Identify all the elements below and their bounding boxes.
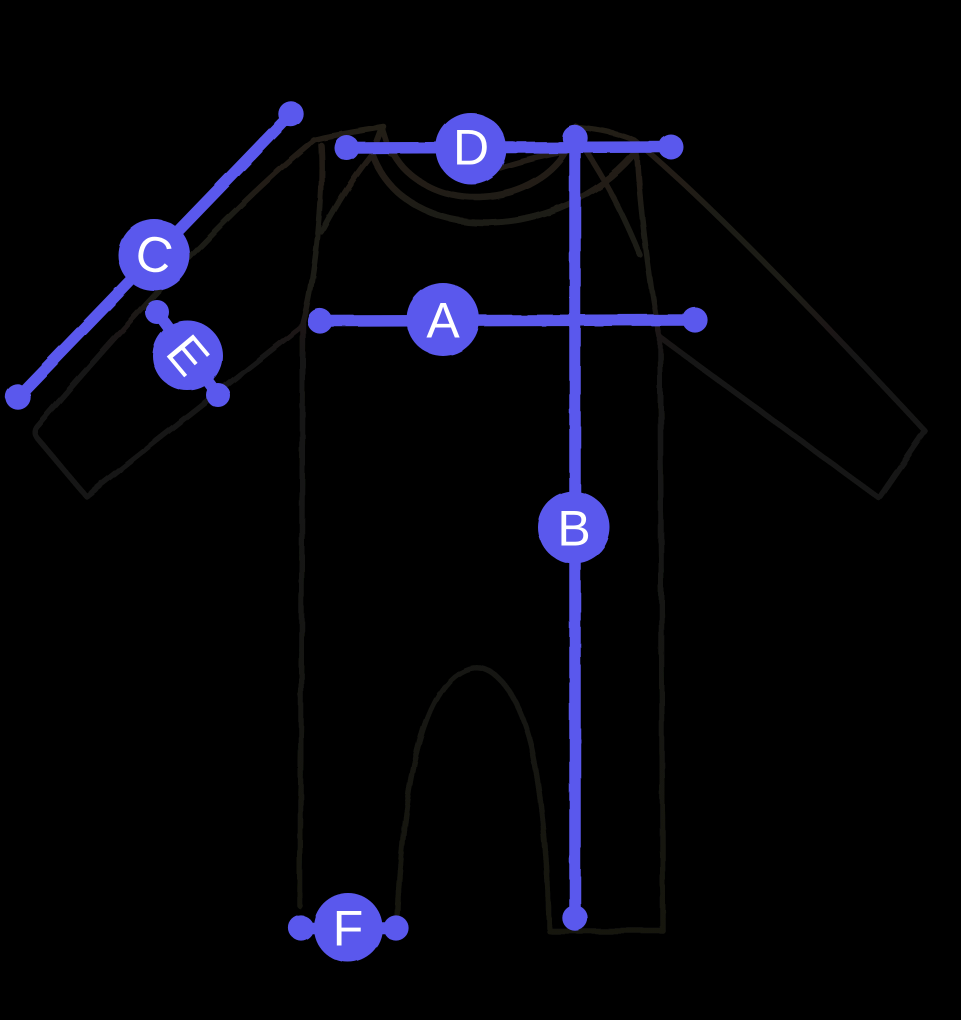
dot B bottom	[562, 905, 587, 930]
letters	[131, 120, 591, 957]
svg-text:D: D	[453, 120, 489, 176]
right sleeve	[576, 127, 925, 498]
right shoulder flap edge	[586, 151, 640, 255]
right body side seam and right leg outer edge	[637, 154, 663, 931]
garment outline (baby sleepsuit), dark sketch strokes	[35, 126, 925, 931]
dot E top	[145, 300, 169, 324]
measurement lines	[18, 114, 695, 928]
left sleeve	[35, 127, 384, 496]
circle B	[538, 492, 610, 564]
svg-text:A: A	[426, 293, 460, 349]
line F (foot width)	[301, 922, 396, 934]
endpoint dots	[5, 101, 707, 940]
dot F left	[288, 915, 313, 940]
neckline outer curve (right flap edge)	[372, 154, 633, 223]
dot D right	[659, 135, 684, 160]
dot C top	[278, 101, 303, 126]
circle F	[314, 893, 383, 962]
dot A left	[307, 308, 332, 333]
dot B top	[562, 125, 587, 150]
neck hole edge	[500, 152, 563, 168]
dot A right	[682, 307, 707, 332]
left shoulder notch	[372, 128, 390, 154]
right shoulder notch	[566, 126, 586, 150]
dot E bottom	[206, 383, 230, 407]
line B (body length)	[569, 138, 581, 918]
label circles	[118, 113, 610, 962]
line C (sleeve length)	[18, 114, 291, 397]
circle E	[153, 321, 223, 391]
neckline inner curve (left flap edge)	[392, 152, 566, 197]
right leg hem	[549, 928, 663, 934]
crotch arch (inner leg edges)	[397, 668, 549, 928]
svg-text:B: B	[557, 501, 590, 557]
dot C bottom	[5, 384, 30, 409]
line A (chest width)	[320, 320, 695, 321]
circle C	[118, 219, 190, 291]
left body side seam and left leg outer edge	[300, 145, 322, 906]
dot F right	[383, 915, 408, 940]
circle D	[436, 113, 507, 184]
dot D left	[335, 136, 360, 161]
circle A	[407, 283, 480, 356]
left shoulder flap edge	[322, 154, 372, 232]
line D (shoulder width)	[347, 147, 671, 148]
svg-text:F: F	[333, 901, 364, 957]
line E (sleeve opening)	[157, 312, 218, 395]
